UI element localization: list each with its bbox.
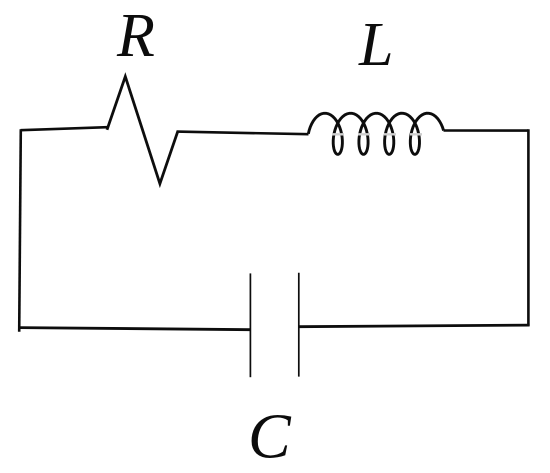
wire right vertical <box>527 129 530 325</box>
wire bottom-right segment <box>299 325 530 327</box>
capacitor C right plate <box>298 273 300 377</box>
wire top-right segment (node between L and C) <box>444 129 529 132</box>
svg-text:R: R <box>116 2 155 70</box>
resistor R (zigzag) <box>107 77 178 184</box>
wire left vertical <box>19 129 21 332</box>
wire top-middle segment (node between R and L) <box>177 132 309 135</box>
wire top-left segment (node between C and R) <box>21 127 107 130</box>
capacitor C left plate <box>249 273 251 377</box>
inductor wire-level erase dashes <box>332 133 424 135</box>
svg-text:L: L <box>358 11 393 79</box>
wire bottom-left segment <box>20 328 251 330</box>
inductor L (coil, 4 loops) <box>308 113 443 154</box>
svg-text:C: C <box>248 401 292 472</box>
